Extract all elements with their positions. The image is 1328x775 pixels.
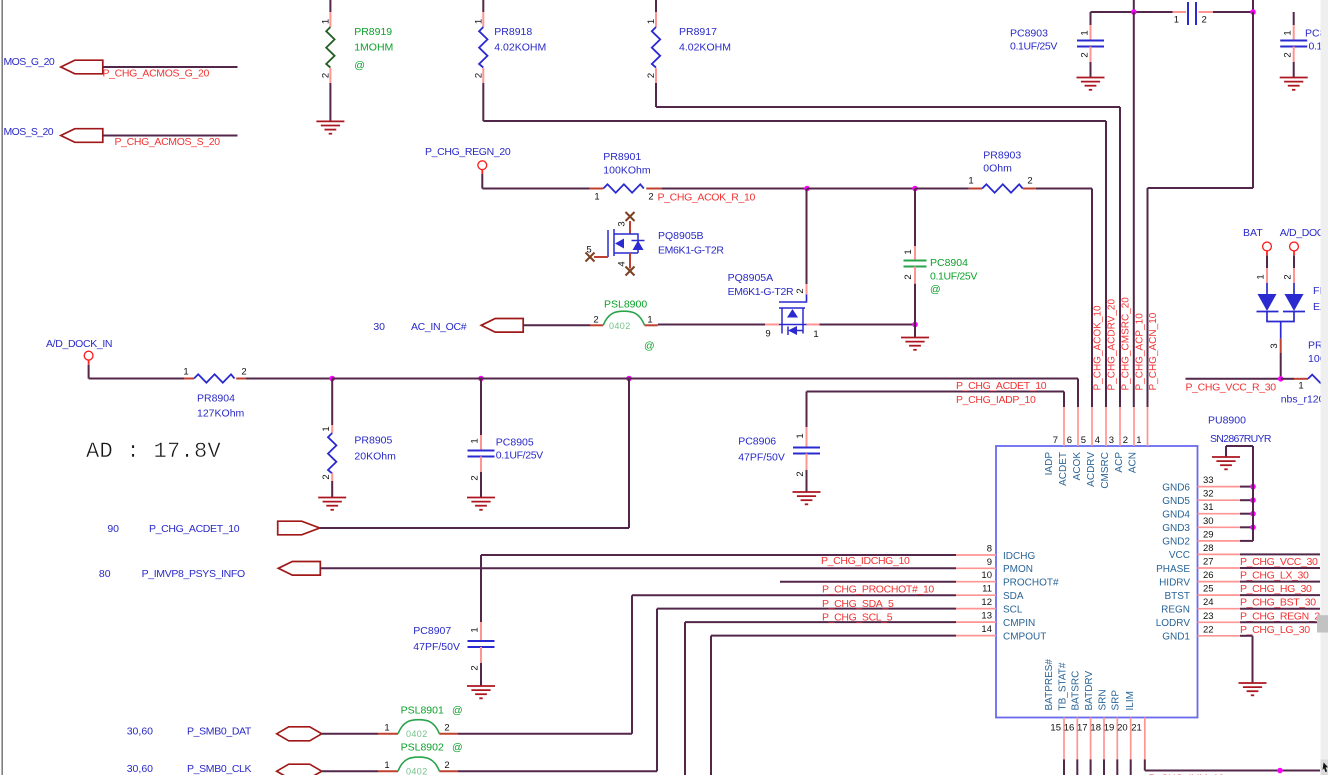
svg-text:BTST: BTST <box>1164 591 1190 602</box>
svg-text:SRP: SRP <box>1111 690 1122 711</box>
svg-text:4.02KOHM: 4.02KOHM <box>679 42 731 54</box>
svg-text:47PF/50V: 47PF/50V <box>413 641 460 653</box>
svg-text:PQ8905A: PQ8905A <box>728 272 774 284</box>
svg-text:VCC: VCC <box>1169 550 1190 561</box>
svg-text:2: 2 <box>241 367 246 378</box>
svg-text:PC8903: PC8903 <box>1010 28 1048 40</box>
svg-text:HIDRV: HIDRV <box>1159 577 1190 588</box>
svg-text:1: 1 <box>813 329 818 340</box>
svg-text:P_CHG_IADP_10: P_CHG_IADP_10 <box>956 394 1036 406</box>
svg-text:PC8907: PC8907 <box>413 625 451 637</box>
svg-text:1: 1 <box>795 433 806 438</box>
svg-text:P_CHG_LX_30: P_CHG_LX_30 <box>1240 570 1309 582</box>
svg-text:P_CHG_PROCHOT#_10: P_CHG_PROCHOT#_10 <box>822 584 934 596</box>
svg-text:PR8903: PR8903 <box>983 150 1021 162</box>
svg-text:18: 18 <box>1090 723 1101 734</box>
svg-text:10: 10 <box>981 570 992 581</box>
svg-text:4: 4 <box>617 261 628 266</box>
svg-text:PC8904: PC8904 <box>930 257 968 269</box>
svg-text:0.1UF/25V: 0.1UF/25V <box>496 450 543 462</box>
svg-text:P_CHG_REGN_20: P_CHG_REGN_20 <box>425 146 511 158</box>
svg-text:20KOhm: 20KOhm <box>354 451 396 463</box>
svg-text:PU8900: PU8900 <box>1208 415 1246 427</box>
svg-text:IDCHG: IDCHG <box>1003 551 1035 562</box>
svg-text:ACN: ACN <box>1128 452 1139 473</box>
svg-text:2: 2 <box>1283 52 1294 57</box>
svg-text:P_CHG_ACMOS_G_20: P_CHG_ACMOS_G_20 <box>103 68 210 80</box>
svg-text:7: 7 <box>1053 435 1058 446</box>
svg-text:8: 8 <box>987 544 992 555</box>
svg-text:PC8906: PC8906 <box>738 436 776 448</box>
svg-text:6: 6 <box>1067 435 1072 446</box>
svg-text:127KOhm: 127KOhm <box>197 408 245 420</box>
svg-text:3: 3 <box>1109 435 1114 446</box>
svg-text:2: 2 <box>1123 435 1128 446</box>
svg-text:P_CHG_SCL_5: P_CHG_SCL_5 <box>822 612 893 624</box>
svg-text:P_CHG_IDCHG_10: P_CHG_IDCHG_10 <box>821 555 910 567</box>
svg-text:28: 28 <box>1203 543 1214 554</box>
svg-text:EM6K1-G-T2R: EM6K1-G-T2R <box>658 245 724 257</box>
svg-text:1: 1 <box>384 760 389 771</box>
svg-text:CMPOUT: CMPOUT <box>1003 631 1046 642</box>
svg-text:AD : 17.8V: AD : 17.8V <box>86 439 222 464</box>
svg-text:12: 12 <box>981 597 992 608</box>
svg-text:PQ8905B: PQ8905B <box>658 230 704 242</box>
svg-text:2: 2 <box>470 475 481 480</box>
svg-text:P_CHG_LG_30: P_CHG_LG_30 <box>1240 624 1310 636</box>
svg-text:15: 15 <box>1050 723 1061 734</box>
svg-text:32: 32 <box>1203 489 1214 500</box>
svg-text:nbs_r120: nbs_r120 <box>1281 394 1325 406</box>
svg-text:2: 2 <box>795 288 806 293</box>
svg-text:P_CHG_ACDET_10: P_CHG_ACDET_10 <box>956 380 1047 392</box>
svg-text:4: 4 <box>1095 435 1100 446</box>
svg-text:P_CHG_ACP_10: P_CHG_ACP_10 <box>1135 313 1146 391</box>
svg-text:0402: 0402 <box>609 321 631 331</box>
svg-text:PR8904: PR8904 <box>197 393 235 405</box>
svg-text:1: 1 <box>470 438 481 443</box>
svg-text:MOS_S_20: MOS_S_20 <box>4 126 54 138</box>
svg-text:30,60: 30,60 <box>127 763 153 775</box>
svg-text:PSL8902: PSL8902 <box>401 742 444 754</box>
svg-text:P_CHG_BST_30: P_CHG_BST_30 <box>1240 597 1316 609</box>
svg-text:9: 9 <box>987 557 992 568</box>
svg-text:2: 2 <box>473 73 484 78</box>
svg-text:SCL: SCL <box>1003 604 1023 615</box>
svg-text:26: 26 <box>1203 570 1214 581</box>
svg-text:2: 2 <box>1027 176 1032 187</box>
svg-text:3: 3 <box>1269 343 1280 348</box>
svg-text:A/D_DOCK_IN: A/D_DOCK_IN <box>46 338 112 350</box>
svg-text:P_CHG_ACMOS_S_20: P_CHG_ACMOS_S_20 <box>115 136 221 148</box>
svg-text:P_CHG_HG_30: P_CHG_HG_30 <box>1240 583 1312 595</box>
svg-text:2: 2 <box>593 315 598 326</box>
svg-text:27: 27 <box>1203 557 1214 568</box>
svg-text:GND5: GND5 <box>1162 496 1190 507</box>
svg-text:GND2: GND2 <box>1162 537 1190 548</box>
svg-text:0402: 0402 <box>406 767 428 775</box>
svg-text:20: 20 <box>1117 723 1128 734</box>
svg-text:1: 1 <box>473 19 484 24</box>
svg-text:BATSRC: BATSRC <box>1071 671 1082 711</box>
svg-text:2: 2 <box>1283 274 1294 279</box>
svg-text:P_CHG_SDA_5: P_CHG_SDA_5 <box>822 598 894 610</box>
svg-text:25: 25 <box>1203 584 1214 595</box>
svg-text:2: 2 <box>1080 52 1091 57</box>
svg-text:9: 9 <box>765 329 770 340</box>
svg-text:47PF/50V: 47PF/50V <box>738 452 785 464</box>
svg-text:PR8917: PR8917 <box>679 26 717 38</box>
svg-text:PR8919: PR8919 <box>354 26 392 38</box>
svg-text:4.02KOHM: 4.02KOHM <box>494 42 546 54</box>
svg-text:EM6K1-G-T2R: EM6K1-G-T2R <box>728 286 794 298</box>
svg-text:2: 2 <box>444 760 449 771</box>
svg-text:1: 1 <box>1136 435 1141 446</box>
svg-text:P_CHG_ACDET_10: P_CHG_ACDET_10 <box>149 523 240 535</box>
svg-text:33: 33 <box>1203 475 1214 486</box>
svg-text:2: 2 <box>646 73 657 78</box>
svg-text:P_IMVP8_PSYS_INFO: P_IMVP8_PSYS_INFO <box>142 568 245 580</box>
svg-text:1: 1 <box>1174 15 1179 26</box>
svg-text:1: 1 <box>1256 274 1267 279</box>
svg-text:5: 5 <box>586 245 591 256</box>
svg-text:11: 11 <box>982 584 992 595</box>
svg-text:TB_STAT#: TB_STAT# <box>1057 662 1068 710</box>
svg-text:100KOhm: 100KOhm <box>603 165 651 177</box>
svg-text:2: 2 <box>444 723 449 734</box>
svg-text:@: @ <box>354 60 365 72</box>
svg-text:PR8905: PR8905 <box>354 435 392 447</box>
svg-text:2: 2 <box>648 192 653 203</box>
svg-text:SDA: SDA <box>1003 591 1024 602</box>
svg-text:1: 1 <box>470 627 481 632</box>
svg-text:GND4: GND4 <box>1162 510 1190 521</box>
svg-text:BAT: BAT <box>1243 227 1263 239</box>
svg-text:5: 5 <box>1081 435 1086 446</box>
svg-text:ACDRV: ACDRV <box>1086 452 1097 487</box>
svg-text:80: 80 <box>99 568 111 580</box>
svg-text:3: 3 <box>617 221 628 226</box>
svg-text:CMPIN: CMPIN <box>1003 618 1035 629</box>
svg-text:P_CHG_ACN_10: P_CHG_ACN_10 <box>1148 312 1159 390</box>
svg-text:@: @ <box>644 340 655 352</box>
svg-text:1: 1 <box>646 19 657 24</box>
svg-text:PHASE: PHASE <box>1156 564 1190 575</box>
svg-text:21: 21 <box>1131 723 1142 734</box>
svg-text:2: 2 <box>321 474 332 479</box>
svg-text:BATDRV: BATDRV <box>1084 671 1095 711</box>
svg-text:P_CHG_ACOK_R_10: P_CHG_ACOK_R_10 <box>658 192 756 204</box>
svg-text:30: 30 <box>1203 516 1214 527</box>
svg-text:PR8918: PR8918 <box>494 26 532 38</box>
svg-text:1: 1 <box>903 249 914 254</box>
svg-text:1: 1 <box>1080 30 1091 35</box>
svg-text:24: 24 <box>1203 597 1214 608</box>
svg-text:@: @ <box>930 284 941 296</box>
svg-text:PSL8901: PSL8901 <box>401 704 444 716</box>
svg-text:P_CHG_ACOK_10: P_CHG_ACOK_10 <box>1093 305 1104 390</box>
svg-text:@: @ <box>452 742 463 754</box>
svg-text:ACDET: ACDET <box>1058 452 1069 486</box>
svg-text:1: 1 <box>594 192 599 203</box>
svg-text:BATPRES#: BATPRES# <box>1044 659 1055 711</box>
svg-text:ACP: ACP <box>1114 452 1125 473</box>
svg-text:1: 1 <box>968 176 973 187</box>
svg-text:2: 2 <box>1202 15 1207 26</box>
svg-text:PC8905: PC8905 <box>496 437 534 449</box>
svg-text:1MOHM: 1MOHM <box>354 42 393 54</box>
svg-text:1: 1 <box>321 426 332 431</box>
svg-text:16: 16 <box>1064 723 1075 734</box>
svg-text:17: 17 <box>1077 723 1088 734</box>
svg-text:19: 19 <box>1104 723 1115 734</box>
svg-text:PROCHOT#: PROCHOT# <box>1003 578 1059 589</box>
svg-text:LODRV: LODRV <box>1156 618 1191 629</box>
svg-text:22: 22 <box>1203 624 1214 635</box>
svg-text:ACOK: ACOK <box>1072 452 1083 481</box>
svg-text:REGN: REGN <box>1161 605 1190 616</box>
svg-text:P_CHG_VCC_R_30: P_CHG_VCC_R_30 <box>1186 382 1277 394</box>
svg-text:0.1UF/25V: 0.1UF/25V <box>930 271 977 283</box>
svg-text:1: 1 <box>1298 381 1303 392</box>
svg-text:P_CHG_VCC_30: P_CHG_VCC_30 <box>1240 556 1318 568</box>
svg-text:13: 13 <box>981 611 992 622</box>
svg-text:90: 90 <box>107 523 119 535</box>
svg-text:P_CHG_CMSRC_20: P_CHG_CMSRC_20 <box>1121 297 1132 391</box>
svg-text:SRN: SRN <box>1097 689 1108 710</box>
svg-text:GND6: GND6 <box>1162 482 1190 493</box>
svg-text:P_SMB0_CLK: P_SMB0_CLK <box>187 763 252 775</box>
svg-text:PR8901: PR8901 <box>603 151 641 163</box>
svg-text:0402: 0402 <box>406 729 428 739</box>
svg-text:2: 2 <box>795 471 806 476</box>
svg-text:CMSRC: CMSRC <box>1100 452 1111 489</box>
svg-text:PSL8900: PSL8900 <box>604 299 647 311</box>
svg-text:SN2867RUYR: SN2867RUYR <box>1210 433 1272 445</box>
svg-text:AC_IN_OC#: AC_IN_OC# <box>411 321 467 333</box>
svg-text:1: 1 <box>647 315 652 326</box>
svg-text:31: 31 <box>1203 502 1214 513</box>
svg-text:ILIM: ILIM <box>1125 691 1136 710</box>
svg-text:29: 29 <box>1203 529 1214 540</box>
svg-text:14: 14 <box>981 624 992 635</box>
svg-text:1: 1 <box>384 723 389 734</box>
svg-text:23: 23 <box>1203 611 1214 622</box>
svg-text:0Ohm: 0Ohm <box>983 163 1012 175</box>
svg-text:1: 1 <box>320 19 331 24</box>
svg-text:IADP: IADP <box>1044 452 1055 476</box>
svg-text:GND1: GND1 <box>1162 632 1190 643</box>
svg-text:P_CHG_ACDRV_20: P_CHG_ACDRV_20 <box>1107 299 1118 391</box>
svg-text:GND3: GND3 <box>1162 523 1190 534</box>
svg-text:MOS_G_20: MOS_G_20 <box>4 56 55 68</box>
svg-text:30,60: 30,60 <box>127 726 153 738</box>
svg-text:0.1UF/25V: 0.1UF/25V <box>1010 41 1057 53</box>
svg-text:2: 2 <box>320 73 331 78</box>
svg-text:1: 1 <box>183 367 188 378</box>
svg-text:PMON: PMON <box>1003 564 1033 575</box>
svg-text:P_SMB0_DAT: P_SMB0_DAT <box>187 726 252 738</box>
svg-text:2: 2 <box>903 274 914 279</box>
svg-text:2: 2 <box>470 665 481 670</box>
svg-text:30: 30 <box>373 321 385 333</box>
svg-text:P_CHG_REGN_20: P_CHG_REGN_20 <box>1240 610 1326 622</box>
svg-text:1: 1 <box>1283 30 1294 35</box>
svg-text:@: @ <box>452 704 463 716</box>
